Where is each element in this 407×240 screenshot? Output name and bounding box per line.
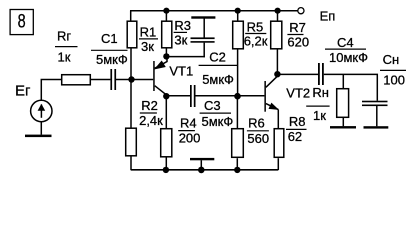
svg-text:1к: 1к	[58, 50, 71, 65]
svg-text:Eг: Eг	[15, 83, 31, 100]
svg-text:8: 8	[18, 11, 26, 32]
svg-text:6,2к: 6,2к	[244, 33, 268, 48]
label R4 200	[178, 116, 200, 146]
svg-text:10мкФ: 10мкФ	[329, 50, 368, 65]
ground Eg	[25, 135, 52, 138]
resistor R5	[233, 21, 244, 49]
wire top rail	[130, 10, 298, 12]
svg-text:R8: R8	[289, 114, 306, 129]
node VT1 collector junction	[163, 93, 169, 99]
resistor R2	[126, 128, 137, 156]
wire R5 top stem	[237, 11, 239, 21]
wire R2 bottom stem	[130, 156, 132, 170]
wire C1 to base node	[116, 79, 132, 81]
svg-text:3к: 3к	[174, 33, 187, 48]
resistor R8	[274, 129, 284, 158]
svg-text:R3: R3	[174, 18, 191, 33]
svg-text:200: 200	[179, 131, 201, 146]
wire Eg to Rg	[41, 80, 61, 101]
capacitor C4	[318, 63, 324, 85]
svg-text:R2: R2	[141, 98, 158, 113]
svg-text:1к: 1к	[313, 108, 326, 123]
capacitor C1	[110, 69, 116, 90]
node VT1 emitter junction	[163, 53, 169, 59]
wire Rn top stem	[342, 74, 344, 88]
resistor R1	[127, 21, 137, 48]
label R5 6.2k	[244, 19, 268, 48]
wire VT1 collector to C3	[166, 95, 190, 97]
resistor R4	[161, 129, 172, 157]
wire R3 top stem	[165, 11, 167, 21]
wire R6 bottom stem	[236, 158, 238, 170]
wire junction to VT2 base	[238, 95, 265, 97]
svg-text:R1: R1	[140, 25, 157, 40]
resistor R7	[271, 21, 282, 49]
label R3 3k	[174, 18, 191, 48]
wire Eg bottom stem	[40, 122, 42, 135]
wire VT2 collector to C4	[277, 73, 318, 75]
wire R6 top stem	[236, 96, 238, 128]
resistor R6	[232, 129, 244, 158]
label R8 62	[286, 114, 307, 144]
node R5 R6 base junction	[234, 93, 241, 100]
ground bottom rail	[190, 158, 214, 170]
svg-text:560: 560	[247, 131, 269, 146]
svg-text:62: 62	[288, 129, 302, 144]
svg-text:VT1: VT1	[169, 64, 193, 79]
svg-text:5мкФ: 5мкФ	[202, 114, 234, 129]
label R1 3k	[139, 25, 158, 55]
wire C3 to R5 R6 junction	[196, 95, 238, 97]
label R6 560	[247, 116, 269, 146]
node R7 rail junction	[275, 8, 281, 14]
label Cn 100	[380, 52, 406, 88]
resistor R3	[162, 21, 172, 48]
wire R7 top stem	[277, 11, 279, 21]
ground Cn	[364, 126, 389, 128]
svg-text:Eп: Eп	[320, 9, 336, 24]
capacitor Cn	[362, 101, 388, 127]
svg-text:5мкФ: 5мкФ	[202, 72, 234, 87]
svg-text:100: 100	[383, 73, 405, 88]
label R7 620	[287, 20, 309, 49]
wire R5 bottom stem	[237, 49, 239, 96]
svg-text:C2: C2	[209, 50, 226, 65]
wire Rg to C1	[91, 79, 110, 81]
svg-text:3к: 3к	[141, 39, 154, 54]
transistor VT1	[153, 58, 167, 95]
resistor Rg	[62, 75, 91, 85]
wire bottom rail	[131, 169, 279, 171]
wire R8 bottom stem	[277, 158, 279, 170]
svg-text:C4: C4	[337, 35, 354, 50]
node VT2 collector junction	[274, 71, 280, 77]
wire R2 top stem	[130, 80, 132, 129]
schematic number box 8	[10, 10, 33, 35]
terminal Ep	[298, 8, 304, 14]
node R3 rail junction	[163, 8, 169, 14]
label Rn 1k	[306, 85, 329, 123]
svg-text:C1: C1	[101, 31, 118, 46]
source Eg	[31, 100, 52, 121]
capacitor C2	[191, 16, 216, 57]
resistor Rn	[337, 89, 349, 118]
svg-text:R4: R4	[180, 116, 197, 131]
label C4 10mkF	[325, 35, 368, 65]
wire R4 top stem	[165, 96, 167, 128]
svg-text:Rн: Rн	[312, 85, 329, 100]
label C3 5mkF	[200, 98, 234, 129]
capacitor C3	[190, 85, 196, 107]
wire C4 to output	[324, 74, 378, 100]
label R2 2.4k	[139, 98, 163, 128]
wire R1 top stem	[130, 11, 132, 21]
svg-text:Rг: Rг	[57, 28, 71, 43]
label C2 5mkF	[199, 50, 238, 87]
svg-text:2,4к: 2,4к	[139, 113, 163, 128]
node ground junction	[198, 167, 205, 174]
node VT1 base junction	[128, 76, 134, 82]
node R5 rail junction	[235, 8, 241, 14]
label Rg 1k	[55, 28, 78, 64]
node R4 bottom junction	[163, 167, 169, 173]
wire VT1 emitter to C2	[166, 56, 205, 58]
wire R3 bottom stem	[165, 48, 167, 57]
svg-text:620: 620	[287, 34, 309, 49]
transistor VT2	[264, 74, 279, 128]
svg-text:Сн: Сн	[383, 52, 400, 67]
wire R4 bottom stem	[165, 157, 167, 170]
svg-text:R7: R7	[289, 20, 306, 35]
wire Rn bottom stem	[342, 118, 344, 127]
wire base node to VT1	[132, 79, 154, 81]
svg-text:R6: R6	[248, 116, 265, 131]
svg-text:5мкФ: 5мкФ	[96, 52, 128, 67]
ground Rn	[330, 126, 356, 128]
wire R7 bottom stem	[276, 49, 278, 74]
svg-text:R5: R5	[247, 19, 264, 34]
svg-text:VT2: VT2	[286, 86, 310, 101]
node R6 bottom junction	[234, 167, 240, 173]
wire R1 bottom stem	[130, 48, 132, 80]
label C1 5mkF	[91, 31, 128, 67]
svg-text:C3: C3	[204, 98, 221, 113]
